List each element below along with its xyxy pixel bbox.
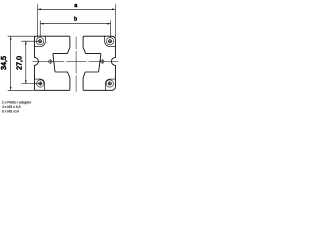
left plate outline [34, 36, 70, 90]
dimension a line [38, 8, 116, 10]
svg-text:b: b [74, 16, 77, 22]
pocket line bottom-right with boss arc [105, 79, 115, 90]
vertical centerline [75, 37, 77, 92]
svg-text:a: a [74, 3, 77, 9]
svg-text:4 x M3 x 6,5: 4 x M3 x 6,5 [2, 105, 21, 109]
dimension 27,0 extension lines [21, 41, 40, 83]
screw top-left [36, 38, 43, 45]
dimension b extension line right [110, 20, 112, 38]
dimension b line [40, 23, 111, 25]
dimension b extension line left [39, 20, 41, 37]
screw bottom-right [106, 80, 113, 87]
screw bottom-left [37, 80, 44, 87]
dimension 34,5 line [10, 36, 12, 90]
svg-text:8 x M3 x14: 8 x M3 x14 [2, 110, 20, 114]
svg-text:34,5: 34,5 [0, 56, 8, 70]
pocket line top-right with boss arc [105, 36, 116, 46]
dimension 27,0 line [25, 41, 27, 84]
pocket line bottom-left with boss arc [34, 79, 44, 90]
svg-text:2 x Platte / adapter: 2 x Platte / adapter [2, 100, 32, 104]
dimension a extension line left [37, 4, 39, 38]
dimension 34,5 extension lines (plate edges extended) [8, 36, 35, 90]
pocket line top-left with boss arc [34, 36, 45, 46]
right plate outline [83, 36, 115, 90]
jackscrew hole right [101, 59, 104, 64]
horizontal centerline [33, 61, 119, 63]
screw top-right [106, 38, 113, 45]
dimension a extension line right [114, 4, 116, 38]
svg-text:27,0: 27,0 [15, 56, 24, 70]
jackscrew hole left [49, 59, 52, 64]
